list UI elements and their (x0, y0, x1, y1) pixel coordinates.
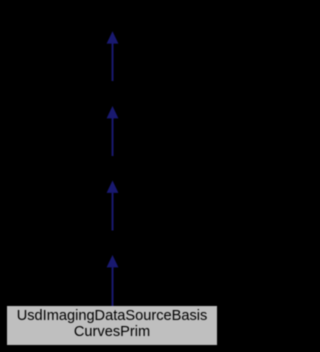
inheritance arrow 3 (shaft + arrowhead) (107, 181, 119, 231)
node box UsdImagingDataSourceBasisCurvesPrim (grey-filled class node) (7, 306, 217, 345)
inheritance arrow 4 (edge from bottom node, shaft + arrowhead) (107, 255, 119, 306)
inheritance arrow 1 (topmost edge, shaft + arrowhead) (107, 31, 119, 81)
inheritance arrow 2 (shaft + arrowhead) (107, 106, 119, 156)
